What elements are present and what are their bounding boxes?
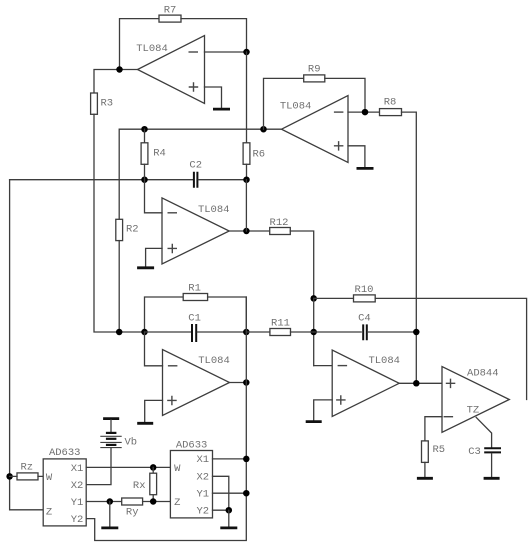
node ground branch on Y1 line — [107, 498, 114, 505]
resistor R9 — [304, 64, 325, 82]
wire R10 right lead to AD844 output — [375, 298, 526, 399]
wire op4 inverting input — [145, 332, 163, 366]
wire R11 leads — [246, 331, 313, 333]
node op5 output junction — [413, 380, 420, 387]
op-amp U5 TL084 — [332, 350, 400, 417]
svg-text:Y1: Y1 — [71, 497, 84, 509]
node op4 output junction — [243, 379, 250, 386]
svg-text:R8: R8 — [384, 97, 397, 109]
wire R10 left lead — [314, 297, 354, 299]
node R4 bottom / op3 inv junction — [141, 176, 148, 183]
wire R4 top lead — [144, 129, 146, 143]
wire op3 output — [229, 230, 270, 232]
op-amp U3 minus marker — [168, 212, 178, 214]
svg-text:Y2: Y2 — [71, 514, 84, 526]
wire TZ pin to C3 — [476, 417, 491, 447]
wire C2 right lead — [198, 179, 246, 181]
node op1 output junction — [116, 66, 123, 73]
wire op2 inverting input to R8 — [348, 111, 380, 113]
node C4 left junction — [310, 329, 317, 336]
svg-text:R7: R7 — [164, 4, 177, 16]
node X1 U8 junction — [243, 456, 250, 463]
wire op1 noninv input to ground — [205, 87, 222, 108]
svg-text:C1: C1 — [188, 312, 201, 324]
wire R7 left lead to op1 output node — [120, 19, 160, 70]
node Rz branch junction — [6, 473, 13, 480]
svg-text:X1: X1 — [196, 454, 209, 466]
node R12 / R10 junction — [310, 295, 317, 302]
node op3 output junction — [243, 228, 250, 235]
wire C4 right lead — [368, 331, 417, 333]
svg-text:Z: Z — [174, 497, 180, 509]
wire C4 left lead — [314, 331, 362, 333]
wire R12 right lead down to R10 node — [290, 231, 313, 298]
svg-text:Vb: Vb — [125, 437, 138, 449]
svg-text:AD633: AD633 — [49, 447, 81, 459]
wire op6 inverting input to R5 — [425, 417, 442, 441]
wire Rz leads — [10, 475, 44, 477]
wire R1 right leg down to C1 right node — [208, 297, 247, 332]
wire op5 output to AD844 noninv input — [399, 382, 442, 384]
ground op3 — [137, 266, 154, 269]
node R4 top junction — [141, 126, 148, 133]
resistor R3 — [91, 93, 114, 114]
svg-text:Z: Z — [46, 506, 52, 518]
svg-text:C4: C4 — [358, 312, 371, 324]
op-amp U2 plus marker — [334, 141, 344, 151]
svg-text:Ry: Ry — [126, 506, 139, 518]
node Rx top junction — [150, 464, 157, 471]
wire R5 bottom stem — [424, 462, 426, 476]
wire op3 noninv input to ground — [146, 248, 162, 266]
resistor R7 — [159, 4, 181, 22]
node R2 bottom junction — [116, 329, 123, 336]
svg-text:R10: R10 — [355, 284, 374, 296]
ground C3 — [484, 477, 500, 480]
op-amp U4 plus marker — [167, 396, 177, 406]
wire ground stem below Y1 line — [109, 502, 111, 527]
svg-text:C3: C3 — [468, 446, 481, 458]
wire R4 bottom lead — [144, 164, 146, 179]
svg-text:W: W — [174, 463, 181, 475]
svg-text:R1: R1 — [188, 282, 201, 294]
svg-text:R11: R11 — [271, 318, 290, 330]
ground R5 — [417, 477, 433, 480]
svg-text:R2: R2 — [126, 224, 139, 236]
wire op2 output rail to R2 top — [119, 129, 281, 219]
svg-text:R6: R6 — [253, 148, 266, 160]
wire battery bottom to X2 pin — [86, 448, 111, 485]
op-amp U2 TL084 (mirrored, output left) — [280, 96, 348, 163]
node Y1 U8 junction — [243, 490, 250, 497]
wire C1 left lead — [145, 331, 192, 333]
svg-text:TL084: TL084 — [368, 355, 400, 367]
wire R9 feedback left leg — [264, 78, 304, 129]
ground op5 — [306, 420, 322, 423]
wire C3 bottom stem — [491, 454, 493, 478]
capacitor C3 — [468, 446, 501, 458]
node C1 right / R11 left junction — [243, 329, 250, 336]
wire X1 pin of U8 to main vertical — [213, 458, 247, 460]
wire R9 right leg down to op2 inverting input — [325, 78, 365, 112]
ground op2 — [357, 167, 374, 170]
node C4 right junction — [413, 329, 420, 336]
capacitor C2 — [189, 160, 202, 188]
wire R6 bottom lead — [246, 164, 248, 179]
battery Vb top terminal bar — [103, 417, 119, 420]
wire R2 bottom lead down to op4 rail — [118, 241, 120, 332]
svg-text:R3: R3 — [101, 98, 114, 110]
op-amp U3 TL084 — [162, 198, 229, 264]
wire R3 bottom long run down to op4 input rail — [94, 114, 145, 332]
resistor R6 — [243, 143, 265, 165]
wire main vertical op4 output down to AD633 pins and bottom return — [86, 297, 246, 541]
wire R8 right lead down the long vertical to C4 right and op5 output — [402, 112, 417, 383]
ground AD633 right — [220, 527, 237, 530]
svg-text:TL084: TL084 — [198, 355, 230, 367]
svg-text:R5: R5 — [433, 444, 446, 456]
battery Vb stem top — [110, 420, 112, 432]
wire R7 right lead down to op1 inverting input — [181, 19, 247, 52]
node op2 inv input junction — [362, 109, 369, 116]
svg-text:AD633: AD633 — [176, 439, 208, 451]
wire Ry right lead to Z pin of U8 — [143, 501, 171, 503]
resistor Rz — [17, 461, 38, 480]
node R9 branch junction — [260, 126, 267, 133]
svg-text:X2: X2 — [71, 480, 84, 492]
wire R1 feedback left leg — [145, 297, 184, 332]
wire R10 node down to C4 node and op5 inverting — [313, 298, 315, 365]
svg-text:TZ: TZ — [467, 404, 480, 416]
wire op4 noninv input to ground — [145, 400, 163, 421]
resistor R10 — [354, 284, 376, 302]
op-amp U6 AD844 — [442, 367, 509, 433]
op-amp U4 minus marker — [168, 365, 178, 367]
resistor R2 — [116, 219, 139, 240]
svg-text:Y2: Y2 — [196, 505, 209, 517]
wire X2 pin of U8 down to Y2 line — [213, 476, 229, 510]
op-amp U1 minus marker — [189, 51, 199, 53]
svg-text:Rz: Rz — [20, 461, 33, 473]
op-amp U3 plus marker — [168, 244, 178, 254]
svg-text:R9: R9 — [308, 64, 321, 76]
wire Y1 pin of U8 to main vertical — [213, 492, 247, 494]
op-amp U6 minus marker — [444, 416, 454, 418]
op-amp U1 plus marker — [189, 82, 199, 92]
resistor R4 — [141, 143, 166, 165]
resistor R5 — [422, 441, 446, 463]
resistor R11 — [270, 318, 291, 336]
op-amp U5 minus marker — [338, 365, 348, 367]
svg-text:AD844: AD844 — [467, 368, 499, 380]
wire ground stem below Y2 — [228, 510, 230, 526]
svg-text:TL084: TL084 — [280, 101, 312, 113]
svg-text:W: W — [46, 472, 53, 484]
wire op5 noninv input to ground — [314, 400, 333, 420]
capacitor C1 — [188, 312, 201, 342]
wire op4 output — [230, 382, 247, 384]
svg-text:R4: R4 — [153, 148, 166, 160]
wire op5 inverting input — [314, 365, 333, 367]
svg-text:X1: X1 — [71, 463, 84, 475]
ground op4 — [137, 422, 153, 425]
resistor R8 — [380, 97, 402, 116]
ground op1 — [213, 108, 230, 111]
wire op2 noninv input to ground — [348, 146, 365, 167]
wire Y1 pin of U7 to Ry — [86, 501, 122, 503]
wire op1 output to R3 top — [94, 70, 138, 94]
wire op1 inv input down to R6 — [246, 52, 248, 143]
resistor R12 — [270, 217, 291, 235]
wire far left rail down to Rz and Z pin — [10, 180, 44, 510]
resistor Rx — [133, 467, 157, 501]
op-amp U5 plus marker — [336, 395, 346, 405]
ground AD633 left — [101, 527, 118, 530]
node op1 inverting input junction — [243, 49, 250, 56]
wire op3 output up to C2 node — [245, 180, 247, 231]
op-amp U1 TL084 (mirrored, output left) — [136, 36, 204, 104]
wire C1 right lead — [197, 331, 246, 333]
resistor Ry — [122, 498, 143, 518]
resistor R1 — [183, 282, 207, 300]
svg-text:TL084: TL084 — [136, 43, 168, 55]
wire op1 inverting input — [205, 51, 247, 53]
svg-text:TL084: TL084 — [198, 204, 230, 216]
node X2-Y2 U8 junction — [226, 507, 233, 514]
op-amp U4 TL084 — [163, 350, 230, 416]
battery Vb plates — [100, 433, 121, 448]
multiplier U8 AD633 (right) — [170, 439, 212, 518]
svg-text:Rx: Rx — [133, 480, 146, 492]
op-amp U2 minus marker — [334, 111, 344, 113]
node op4 inverting junction — [141, 329, 148, 336]
svg-text:C2: C2 — [189, 160, 202, 172]
capacitor C4 — [358, 312, 371, 340]
node Rx bottom junction — [150, 498, 157, 505]
svg-text:X2: X2 — [196, 472, 209, 484]
svg-text:R12: R12 — [270, 217, 289, 229]
wire Y2 pin of U8 — [213, 509, 229, 511]
wire op3 inverting input from rail — [145, 180, 163, 213]
wire X1 pin of U7 to W pin of U8 — [86, 466, 170, 468]
multiplier U7 AD633 (left) — [43, 447, 86, 526]
node C2 right / R6 bottom / op3 out junction — [243, 176, 250, 183]
svg-text:Y1: Y1 — [196, 488, 209, 500]
wire input rail y180 left section with C2 left lead — [10, 179, 193, 181]
op-amp U6 plus marker — [446, 379, 456, 389]
